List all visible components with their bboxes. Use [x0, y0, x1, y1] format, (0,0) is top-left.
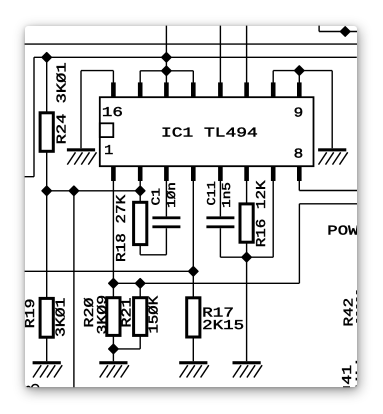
junction node 13: [109, 344, 118, 353]
IC1 bottom pin stub 8: [297, 166, 302, 181]
IC1 top pin stub 10: [271, 82, 276, 97]
wire pin9 link: [298, 71, 300, 84]
left drop wire: [33, 57, 35, 176]
wire pin12 from top: [219, 25, 221, 83]
svg-text:2K15: 2K15: [202, 319, 244, 334]
wire pins10-9 gnd h: [273, 70, 332, 72]
wire pin1 down: [112, 180, 114, 283]
wire pin16 stub link: [112, 71, 114, 84]
cut value text slivers (right edge, R42 column): [356, 290, 358, 322]
wire pin13 link: [192, 71, 194, 84]
svg-text:1: 1: [104, 144, 113, 159]
wire gnd2 drop: [331, 71, 333, 149]
cut value text slivers (right edge, R41 column): [356, 361, 358, 388]
svg-text:8: 8: [294, 147, 304, 162]
IC1 top pin stub 14: [164, 82, 169, 97]
junction node 9: [109, 279, 118, 288]
exit-left wire: [25, 176, 35, 178]
junction node 4: [295, 66, 304, 75]
wire pin8 right: [299, 190, 357, 192]
R16 bottom to gnd: [246, 242, 248, 361]
junction node 3: [162, 66, 171, 75]
capacitor C11 plates: [206, 216, 234, 219]
svg-text:3KØ1: 3KØ1: [54, 298, 69, 337]
wire pins 15-13 connector: [140, 70, 193, 72]
ground symbol 3: [33, 361, 63, 377]
IC1 bottom pin stub 3: [164, 166, 169, 181]
resistor R17 body: [187, 298, 200, 337]
svg-text:R24 3KØ1: R24 3KØ1: [55, 62, 70, 144]
resistor R18 body: [134, 202, 147, 244]
junction node 7: [69, 186, 78, 195]
R21 bottom lead: [139, 335, 141, 349]
svg-text:IC1 TL494: IC1 TL494: [161, 127, 258, 142]
junction node 1: [42, 53, 51, 62]
wire pin15 link: [139, 71, 141, 84]
svg-text:16: 16: [102, 106, 123, 121]
schematic page: [25, 26, 357, 388]
R20 bottom lead: [112, 335, 114, 361]
wire pin16 gnd v: [80, 71, 82, 149]
svg-text:R21: R21: [121, 298, 136, 328]
top-right wire v: [318, 25, 320, 31]
wire pin3 to C1: [165, 180, 167, 216]
R20 top lead: [112, 283, 114, 297]
R24 top lead: [46, 57, 48, 113]
C11 bottom lead: [219, 228, 221, 257]
junction node 11: [189, 267, 198, 276]
C1 bottom lead: [165, 228, 167, 255]
wire pin7 down: [272, 180, 274, 257]
svg-text:R16 12K: R16 12K: [255, 179, 270, 247]
cut glyph sliver (R of R41 at bottom edge): [343, 386, 350, 388]
IC1 top pin stub 9: [297, 82, 302, 97]
wire pin2 to R18: [139, 180, 141, 202]
wire power riser: [298, 204, 300, 283]
IC1 bottom pin stub 4: [191, 166, 196, 181]
ground symbol 2: [318, 148, 348, 164]
IC1 top pin stub 12: [218, 82, 223, 97]
junction node 12: [242, 253, 251, 262]
wire pin4 to R17: [192, 180, 194, 298]
svg-text:POWER: POWER: [327, 225, 379, 240]
ground symbol 5: [179, 361, 209, 377]
wire R24 col down: [46, 191, 48, 299]
wire C11-junction: [220, 256, 246, 258]
wire pin10 link: [272, 71, 274, 84]
capacitor C1 plates: [152, 216, 180, 219]
R19 bottom lead: [46, 337, 48, 361]
wire R20-R21 bottom: [113, 348, 140, 350]
IC1 bottom pin stub 1: [111, 166, 116, 181]
wire pin14 from top: [165, 25, 167, 83]
svg-text:1Øn: 1Øn: [165, 182, 179, 208]
wire pin8 down: [298, 180, 300, 191]
op-amp/IC U1: IC1 TL494 body: [100, 97, 314, 166]
svg-text:15ØK: 15ØK: [148, 295, 163, 334]
svg-text:R19: R19: [24, 299, 39, 329]
cut glyph slivers (bottom-left corner): [26, 384, 39, 388]
junction node 2: [162, 53, 171, 62]
wire pin6 to R16: [246, 180, 248, 204]
ground symbol 4: [99, 361, 129, 377]
top-right wire h: [319, 31, 357, 33]
resistor R16 body: [240, 204, 253, 242]
wire pin5 to C11: [219, 180, 221, 216]
bus 271: [25, 270, 194, 272]
IC1 top pin stub 13: [191, 82, 196, 97]
wire power top: [299, 203, 357, 205]
R18 bottom lead: [139, 245, 141, 255]
IC1 top pin stub 15: [138, 82, 143, 97]
ground symbol 1: [67, 148, 97, 164]
resistor R20 body: [107, 298, 120, 336]
IC1 pin-1 notch marker: [100, 123, 114, 137]
wire v74 exit bottom: [73, 191, 75, 388]
junction node 6: [42, 186, 51, 195]
svg-text:1n5: 1n5: [220, 182, 234, 208]
svg-text:9: 9: [294, 107, 304, 122]
IC1 top pin stub 11: [244, 82, 249, 97]
wire pin11 from top: [246, 25, 248, 83]
junction node 10: [136, 279, 145, 288]
R21 top lead: [139, 283, 141, 297]
IC1 bottom pin stub 6: [244, 166, 249, 181]
bus VCC top: [24, 43, 358, 45]
IC1 bottom pin stub 5: [218, 166, 223, 181]
resistor R21 body: [134, 298, 147, 336]
bus feedback: [47, 190, 141, 192]
IC1 bottom pin stub 2: [138, 166, 143, 181]
wire pin16 gnd h: [81, 70, 113, 72]
R24 bottom lead: [46, 151, 48, 191]
bus 2: [34, 56, 357, 58]
IC1 bottom pin stub 7: [271, 166, 276, 181]
wire R18-C1 bottom: [140, 254, 166, 256]
svg-text:C1: C1: [150, 188, 164, 206]
svg-text:R18 27K: R18 27K: [115, 194, 130, 262]
svg-text:3KØ9: 3KØ9: [96, 295, 111, 335]
svg-text:41: 41: [341, 365, 356, 385]
svg-text:R42: R42: [342, 298, 357, 327]
ground symbol 6: [233, 361, 263, 377]
R17 bottom lead: [192, 337, 194, 361]
bus 283: [113, 282, 299, 284]
resistor R24 body: [40, 113, 53, 152]
junction node 5: [341, 27, 350, 36]
resistor R19 body: [40, 298, 53, 337]
svg-text:C11: C11: [205, 181, 219, 205]
junction node 8: [136, 186, 145, 195]
wire pin7-junction: [247, 256, 274, 258]
IC1 top pin stub 16: [111, 82, 116, 97]
